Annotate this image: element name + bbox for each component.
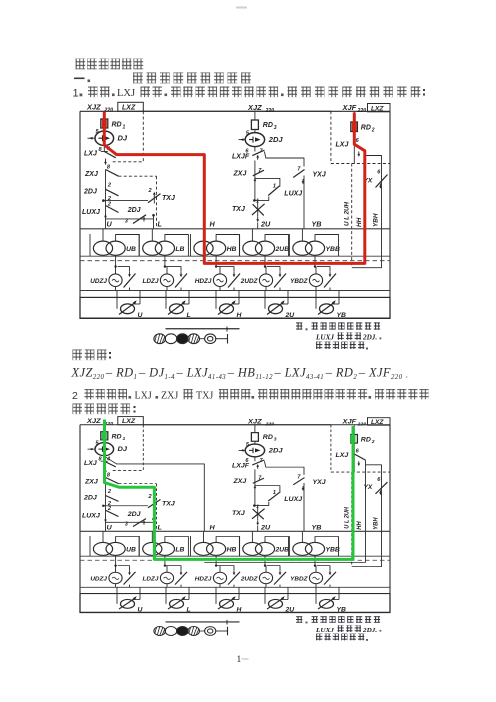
circuit diagram 1 (red-line state) bbox=[80, 102, 390, 349]
fuse RD2 red body bbox=[352, 122, 357, 131]
svg-text:2: 2 bbox=[72, 390, 78, 402]
svg-text:1: 1 bbox=[237, 655, 242, 665]
caption dianlu wei bbox=[73, 350, 83, 361]
svg-text:ZXJ: ZXJ bbox=[161, 391, 178, 402]
wire red path XJZ-RD1-DJ bbox=[103, 112, 106, 147]
fuse RD1 red body bbox=[102, 119, 107, 127]
svg-text:LXJ: LXJ bbox=[135, 391, 152, 402]
svg-text:XJZ220 – RD1 – DJ1-4 – LXJ41-4: XJZ220 – RD1 – DJ1-4 – LXJ41-43 – HB11-1… bbox=[71, 366, 409, 382]
svg-text:1: 1 bbox=[73, 88, 79, 100]
heading line 2 bbox=[74, 78, 85, 80]
svg-text:LXJ: LXJ bbox=[117, 88, 135, 99]
paragraph 2 line 2 bbox=[73, 404, 83, 415]
fuse RD2 green body (diagram 2) bbox=[351, 435, 356, 443]
svg-text:TXJ: TXJ bbox=[196, 391, 213, 402]
fuse RD1 green body (diagram 2) bbox=[102, 432, 107, 440]
page top smudge bbox=[236, 7, 247, 9]
wire green path XJZ-RD1-DJ-LXJ bbox=[105, 420, 354, 560]
wire red path LXJ back contact to HB bbox=[104, 113, 365, 264]
circuit diagram 2 (green-line state) bbox=[80, 417, 390, 641]
heading line 1 bbox=[76, 59, 86, 70]
